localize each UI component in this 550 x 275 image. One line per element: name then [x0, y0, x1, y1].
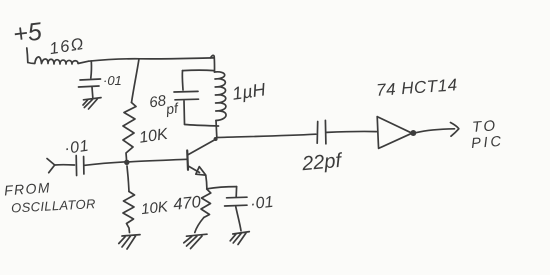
- svg-text:TO: TO: [472, 117, 498, 136]
- wire rail corner down: [211, 55, 215, 72]
- svg-text:+5: +5: [12, 17, 44, 48]
- wire branch to R2: [132, 59, 140, 103]
- inductor L1 1uH (coil): [215, 72, 227, 121]
- capacitor C1 .01 bottom plate: [79, 86, 100, 87]
- wire node A to base: [127, 159, 187, 162]
- wire input to C3: [55, 164, 75, 166]
- svg-text:·01: ·01: [103, 73, 122, 88]
- transistor Q1 collector line: [188, 140, 214, 155]
- inverter U1 74HCT14 triangle: [377, 117, 412, 149]
- wire top rail: [89, 58, 215, 61]
- label 74 HCT14: [376, 75, 459, 100]
- capacitor C2 68pf bottom plate: [175, 98, 199, 101]
- label 68 pf: [148, 92, 181, 117]
- svg-text:PIC: PIC: [471, 134, 505, 152]
- label 10K (R2): [138, 126, 170, 147]
- wire C3 to node A: [85, 162, 126, 166]
- capacitor C5 22pf left plate: [316, 122, 319, 144]
- tank bottom wire: [185, 125, 219, 127]
- label 10K (R3): [140, 198, 169, 218]
- transistor Q1 emitter arrowhead: [196, 167, 206, 176]
- label 470 (R4): [172, 193, 202, 214]
- wire bypass cap lead: [90, 61, 93, 78]
- wire C4 lead down: [235, 187, 237, 197]
- node A (base node): [124, 160, 129, 165]
- svg-text:·01: ·01: [63, 138, 90, 158]
- arrowhead output: [451, 123, 459, 137]
- wire C1 to ground: [91, 87, 94, 98]
- capacitor C3 .01 right plate: [83, 157, 85, 175]
- svg-text:·01: ·01: [249, 194, 274, 213]
- wire emitter node to C4: [207, 187, 237, 189]
- svg-text:FROM: FROM: [4, 179, 52, 198]
- tank top wire: [183, 69, 215, 71]
- label .01 (C1): [103, 73, 122, 88]
- inverter U1 output bubble: [410, 130, 416, 136]
- resistor R2 10K: [123, 103, 136, 162]
- wire tank left lower lead: [183, 101, 186, 124]
- wire R4 to ground: [195, 218, 204, 233]
- ground (C4): [230, 232, 249, 245]
- resistor R3 10K: [123, 192, 135, 233]
- capacitor C3 .01 left plate: [75, 156, 77, 176]
- label +5: [12, 17, 44, 48]
- wire collector node to C5: [217, 134, 316, 137]
- label FROM OSCILLATOR: [4, 179, 97, 215]
- capacitor C2 68pf top plate: [174, 90, 198, 93]
- wire C4 to ground: [236, 207, 241, 231]
- svg-text:10K: 10K: [140, 198, 169, 218]
- wire inverter output arrow: [416, 129, 454, 133]
- wire C5 to inverter: [327, 130, 377, 133]
- capacitor C4 .01 top plate: [227, 196, 247, 199]
- wire +5 input tick: [27, 48, 28, 63]
- label 16 ohm: [48, 35, 86, 58]
- wire tank left upper lead: [181, 71, 184, 90]
- capacitor C1 .01 top plate: [80, 79, 101, 80]
- wire input with arrow tick: [47, 159, 55, 173]
- label 1uH: [231, 79, 268, 104]
- node collector junction: [214, 137, 218, 141]
- wire emitter down: [206, 176, 207, 190]
- capacitor C5 22pf right plate: [324, 120, 327, 144]
- resistor R1 16 ohm (squiggle): [28, 57, 89, 64]
- label 22pf: [300, 150, 344, 176]
- ground (R4): [184, 234, 207, 248]
- wire coil to collector node: [215, 121, 218, 138]
- svg-text:470: 470: [172, 193, 202, 214]
- capacitor C4 .01 bottom plate: [225, 204, 247, 207]
- resistor R4 470: [201, 189, 211, 218]
- wire node A down to R3: [127, 166, 129, 192]
- ground (C1): [83, 98, 101, 109]
- label .01 (C4): [249, 194, 274, 213]
- label TO PIC: [471, 117, 505, 152]
- svg-text:22pf: 22pf: [300, 150, 344, 176]
- transistor Q1 base bar: [186, 151, 189, 170]
- transistor Q1 emitter line: [188, 166, 199, 173]
- label .01 (C3): [63, 138, 90, 158]
- ground (R3): [119, 235, 140, 249]
